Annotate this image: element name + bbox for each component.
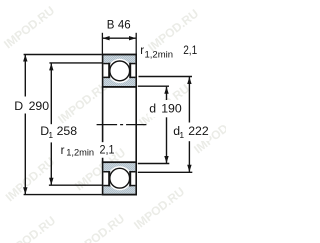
svg-text:258: 258 xyxy=(57,124,78,138)
svg-text:2,1: 2,1 xyxy=(183,45,197,57)
svg-text:1,2min: 1,2min xyxy=(145,49,174,60)
svg-text:D: D xyxy=(14,99,23,113)
svg-text:1,2min: 1,2min xyxy=(66,148,94,158)
svg-text:222: 222 xyxy=(188,124,209,138)
svg-text:46: 46 xyxy=(118,20,131,32)
svg-text:1: 1 xyxy=(48,130,53,140)
svg-text:d: d xyxy=(149,102,156,116)
svg-text:290: 290 xyxy=(29,99,50,113)
svg-text:1: 1 xyxy=(179,130,184,140)
svg-text:190: 190 xyxy=(161,102,182,116)
svg-text:B: B xyxy=(107,20,115,32)
svg-text:r: r xyxy=(61,145,65,157)
svg-text:2,1: 2,1 xyxy=(100,144,115,156)
